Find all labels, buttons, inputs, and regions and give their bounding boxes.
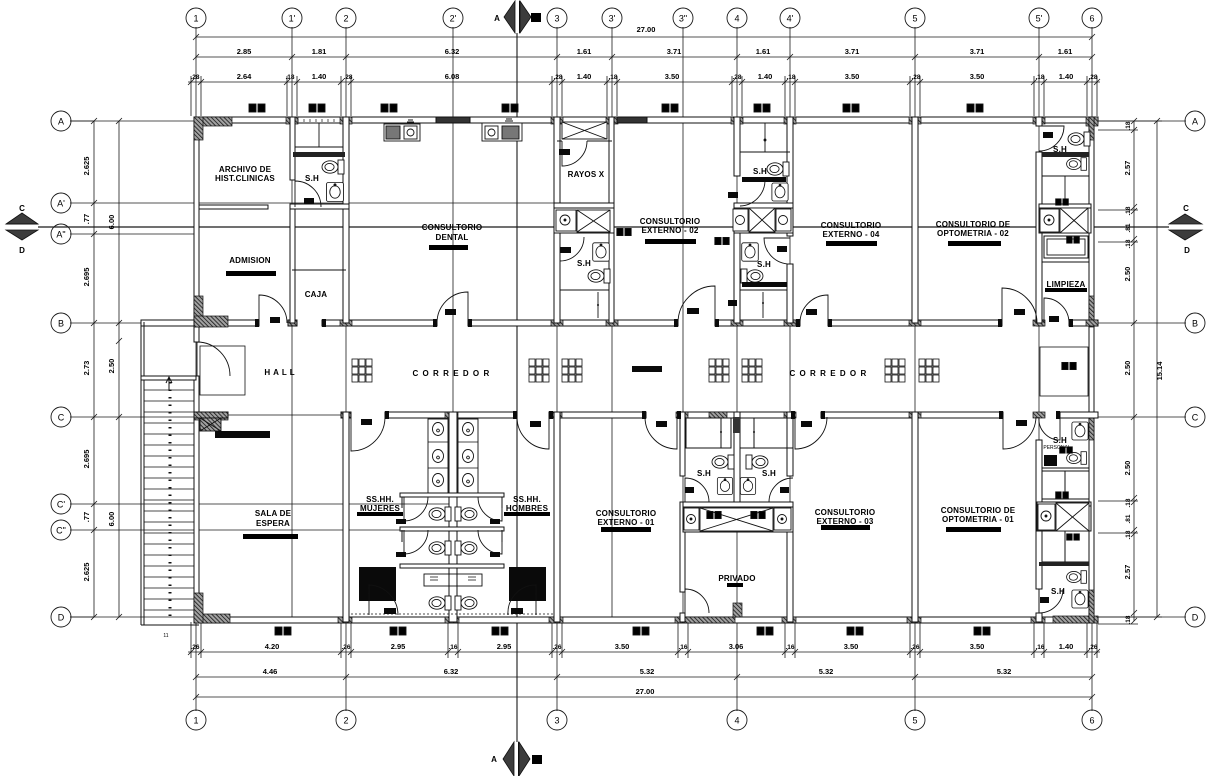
- ss.hh showers: [359, 567, 396, 601]
- grid line 4: [736, 27, 738, 711]
- svg-text:C": C": [56, 526, 66, 536]
- svg-text:S.H: S.H: [757, 260, 771, 269]
- grid line 3: [556, 27, 558, 711]
- svg-text:15.14: 15.14: [1155, 361, 1164, 381]
- svg-text:3: 3: [554, 14, 559, 24]
- ss.hh stall wall row2: [400, 527, 504, 531]
- partition wall grid3 lower: [554, 412, 560, 622]
- svg-text:.81: .81: [1125, 223, 1132, 232]
- partition wall grid4' lower: [787, 412, 793, 476]
- sh g4 label bar: [742, 177, 786, 182]
- svg-text:.81: .81: [1125, 514, 1132, 523]
- stall doors row2: [404, 530, 428, 554]
- door externo-03: [795, 417, 827, 449]
- top grid bubbles: [186, 8, 206, 28]
- window tags bottom: [275, 627, 291, 635]
- svg-text:1.61: 1.61: [1058, 47, 1073, 56]
- svg-text:1.81: 1.81: [312, 47, 327, 56]
- svg-text:B: B: [535, 759, 539, 765]
- section marker A-B bottom: [518, 742, 520, 776]
- svg-text:MUJERES: MUJERES: [360, 504, 401, 513]
- C wall piers: [445, 412, 1045, 418]
- right strip shaft band lower: [1038, 504, 1055, 530]
- svg-text:HALL: HALL: [264, 368, 297, 377]
- corridor end room outline: [1040, 347, 1088, 396]
- grid row A'' line: [70, 233, 196, 235]
- svg-text:6.32: 6.32: [444, 667, 459, 676]
- door ss.hh hombres: [517, 417, 549, 449]
- svg-text:CORREDOR: CORREDOR: [412, 369, 493, 378]
- svg-text:4.46: 4.46: [263, 667, 278, 676]
- svg-text:.28: .28: [553, 74, 562, 81]
- right strip closet divider top: [1064, 176, 1066, 204]
- bottom exterior wall: [194, 617, 1098, 623]
- svg-text:.18: .18: [1125, 239, 1132, 248]
- door jambs corridor wall C: [385, 411, 1060, 419]
- door ss.hh mujeres: [351, 417, 385, 451]
- svg-text:5: 5: [912, 14, 917, 24]
- shaft band g3: sink box: [556, 210, 576, 231]
- svg-text:5.32: 5.32: [997, 667, 1012, 676]
- ss.hh stall toilets row1: [429, 507, 451, 521]
- top exterior wall: [194, 117, 1098, 123]
- door sh top-left: [295, 181, 321, 207]
- svg-text:3": 3": [679, 14, 687, 24]
- dental counter 2: [482, 123, 522, 141]
- svg-text:D: D: [1192, 613, 1199, 623]
- svg-text:SS.HH.: SS.HH.: [513, 495, 541, 504]
- ss.hh stall wall row3: [400, 564, 504, 568]
- svg-text:CONSULTORIO DE: CONSULTORIO DE: [941, 506, 1016, 515]
- svg-text:1.61: 1.61: [577, 47, 592, 56]
- svg-text:5: 5: [912, 716, 917, 726]
- svg-text:.16: .16: [1035, 644, 1044, 651]
- door optometria-01: [1003, 417, 1036, 449]
- svg-text:ADMISION: ADMISION: [229, 256, 271, 265]
- svg-text:.18: .18: [1125, 530, 1132, 539]
- right strip toilet 2: [1067, 158, 1087, 171]
- door limpieza: [1044, 298, 1069, 323]
- svg-text:CONSULTORIO: CONSULTORIO: [815, 508, 876, 517]
- stall doors row1: [404, 497, 428, 521]
- grid row C' line: [70, 503, 452, 505]
- svg-text:5.32: 5.32: [640, 667, 655, 676]
- corridor wall C with door gaps: [194, 412, 228, 418]
- sh top-left closet: [295, 146, 343, 148]
- svg-text:2: 2: [343, 716, 348, 726]
- svg-text:4.20: 4.20: [265, 642, 280, 651]
- left exterior wall: [194, 117, 199, 342]
- caja top wall: [292, 269, 346, 271]
- right grid bubbles: [1185, 111, 1205, 131]
- svg-text:4: 4: [734, 716, 739, 726]
- svg-text:27.00: 27.00: [636, 687, 655, 696]
- ss.hh double lavatory: [424, 574, 482, 586]
- svg-text:S.H: S.H: [1053, 436, 1067, 445]
- svg-text:11: 11: [163, 633, 168, 639]
- svg-text:6.00: 6.00: [107, 215, 116, 230]
- svg-text:EXTERNO - 03: EXTERNO - 03: [816, 517, 873, 526]
- top dim line row1 (27.00): [196, 36, 1092, 38]
- window sill ticks over SH window: [298, 119, 334, 122]
- grid line 5: [914, 27, 916, 711]
- top sh band g4: [734, 203, 793, 208]
- bottom dim line row2: [196, 676, 1092, 678]
- ss.hh stall wall row1: [400, 493, 504, 497]
- bottom extension stubs: [191, 622, 1097, 658]
- closet below sh-rayos: [560, 289, 609, 291]
- svg-text:.18: .18: [608, 74, 617, 81]
- svg-text:A: A: [58, 117, 64, 127]
- door privado: [685, 589, 709, 613]
- grid line 2': [452, 27, 454, 622]
- svg-text:A: A: [1192, 117, 1198, 127]
- svg-text:CONSULTORIO: CONSULTORIO: [640, 217, 701, 226]
- grid line 1: [195, 27, 197, 711]
- partition wall grid1' upper: [290, 117, 295, 180]
- svg-text:3: 3: [554, 716, 559, 726]
- door admision: [259, 295, 287, 323]
- svg-text:S.H: S.H: [697, 469, 711, 478]
- svg-text:1: 1: [193, 14, 198, 24]
- svg-text:1.40: 1.40: [1059, 72, 1074, 81]
- door dental: [437, 292, 468, 323]
- window tags top: [249, 104, 265, 112]
- svg-text:ARCHIVO DE: ARCHIVO DE: [219, 165, 272, 174]
- svg-text:.28: .28: [1088, 74, 1097, 81]
- svg-text:2.50: 2.50: [107, 359, 116, 374]
- svg-text:ESPERA: ESPERA: [256, 519, 290, 528]
- hall landing wall to stair: [141, 320, 194, 326]
- svg-text:.18: .18: [1035, 74, 1044, 81]
- svg-text:S.H: S.H: [1053, 145, 1067, 154]
- svg-text:2.73: 2.73: [82, 361, 91, 376]
- left grid bubbles: [51, 111, 71, 131]
- door externo-01: [645, 417, 677, 449]
- right strip shaft band top: [1040, 209, 1059, 232]
- grid row C'' line: [70, 529, 452, 531]
- svg-text:C': C': [57, 500, 65, 510]
- sh g4 closet: [740, 151, 790, 153]
- sink sh top-left: [326, 183, 343, 202]
- ss.hh centre wall lower: [449, 412, 457, 622]
- top dim line row2: [196, 56, 1092, 58]
- bottom grid bubbles: [186, 710, 206, 730]
- svg-text:2.95: 2.95: [391, 642, 406, 651]
- svg-text:1.40: 1.40: [758, 72, 773, 81]
- svg-text:5': 5': [1036, 14, 1043, 24]
- grid line 1': [291, 27, 293, 622]
- corridor ceiling grids: [352, 359, 372, 382]
- svg-text:.16: .16: [678, 644, 687, 651]
- svg-text:.16: .16: [785, 644, 794, 651]
- svg-text:D: D: [1184, 246, 1190, 255]
- right extension stubs: [1098, 121, 1162, 624]
- svg-text:1: 1: [193, 716, 198, 726]
- svg-text:5.32: 5.32: [819, 667, 834, 676]
- right strip partitions lower: [1042, 467, 1089, 469]
- grid row D line: [70, 616, 196, 618]
- right strip bottom toilet: [1067, 571, 1087, 584]
- svg-text:.18: .18: [285, 74, 294, 81]
- svg-text:2.57: 2.57: [1123, 565, 1132, 580]
- svg-text:2.95: 2.95: [497, 642, 512, 651]
- svg-text:CONSULTORIO: CONSULTORIO: [596, 509, 657, 518]
- top wall solid segment near section: [436, 117, 470, 123]
- svg-text:.18: .18: [1125, 121, 1132, 130]
- svg-text:27.00: 27.00: [637, 25, 656, 34]
- partition wall grid5' upper: [1036, 117, 1042, 126]
- ss.hh tile line: [351, 613, 553, 615]
- right strip personal sh toilet: [1067, 452, 1087, 465]
- mid-block shaft band: [683, 507, 793, 532]
- ss.hh stall toilets row2: [429, 541, 451, 555]
- door externo-02: [678, 286, 715, 323]
- svg-text:A': A': [57, 199, 65, 209]
- svg-text:S.H: S.H: [1051, 587, 1065, 596]
- svg-text:D: D: [19, 246, 25, 255]
- section marker A-B top: [519, 1, 521, 33]
- svg-text:EXTERNO - 02: EXTERNO - 02: [641, 226, 698, 235]
- svg-text:3.71: 3.71: [667, 47, 682, 56]
- svg-text:LIMPIEZA: LIMPIEZA: [1047, 280, 1086, 289]
- svg-text:EXTERNO - 04: EXTERNO - 04: [822, 230, 879, 239]
- svg-text:.16: .16: [448, 644, 457, 651]
- top wall piers hatched: [194, 117, 1098, 126]
- svg-text:SALA DE: SALA DE: [255, 509, 292, 518]
- closet below sh g4': [740, 289, 787, 291]
- bottom wall piers hatched: [194, 614, 1098, 623]
- right strip personal sh sink: [1072, 422, 1088, 440]
- partition wall grid5 upper: [912, 117, 918, 323]
- svg-text:OPTOMETRIA - 02: OPTOMETRIA - 02: [937, 229, 1009, 238]
- grid line 6: [1091, 27, 1093, 711]
- svg-text:3.50: 3.50: [845, 72, 860, 81]
- svg-text:CONSULTORIO: CONSULTORIO: [422, 223, 483, 232]
- right strip partitions upper: [1042, 152, 1089, 157]
- svg-text:.28: .28: [190, 74, 199, 81]
- partition wall grid5 lower: [912, 412, 918, 622]
- svg-text:B: B: [58, 319, 64, 329]
- svg-text:2.695: 2.695: [82, 268, 91, 287]
- svg-text:C: C: [19, 204, 25, 213]
- svg-text:CONSULTORIO: CONSULTORIO: [821, 221, 882, 230]
- svg-text:B: B: [534, 17, 538, 23]
- svg-text:1': 1': [289, 14, 296, 24]
- svg-text:2: 2: [343, 14, 348, 24]
- svg-text:2.50: 2.50: [1123, 267, 1132, 282]
- svg-text:6: 6: [1089, 14, 1094, 24]
- svg-text:3.71: 3.71: [970, 47, 985, 56]
- top extension stubs: [191, 76, 1097, 116]
- svg-text:.28: .28: [911, 74, 920, 81]
- svg-text:A": A": [56, 230, 65, 240]
- toilet sh-rayos: [588, 269, 610, 283]
- door mid sh left: [685, 478, 709, 502]
- door sh g4 top: [740, 181, 765, 206]
- svg-text:.28: .28: [343, 74, 352, 81]
- svg-text:.18: .18: [1125, 206, 1132, 215]
- archivo bottom wall: [199, 205, 268, 209]
- svg-text:RAYOS X: RAYOS X: [568, 170, 605, 179]
- svg-text:2.50: 2.50: [1123, 361, 1132, 376]
- partition wall grid4 upper: [734, 117, 740, 176]
- grid row A' line: [70, 202, 612, 204]
- door sh g4' lower: [764, 238, 790, 264]
- rayos bottom wall: [554, 203, 614, 208]
- svg-text:S.H: S.H: [753, 167, 767, 176]
- partition wall grid2 upper: [343, 117, 349, 323]
- partition wall grid3' upper: [609, 117, 614, 323]
- svg-text:3.50: 3.50: [615, 642, 630, 651]
- svg-text:3.50: 3.50: [844, 642, 859, 651]
- bottom dim line row1: [188, 651, 1100, 653]
- door externo-04: [800, 295, 828, 323]
- svg-text:2.625: 2.625: [82, 157, 91, 176]
- door sh personal: [1039, 417, 1060, 440]
- svg-text:EXTERNO - 01: EXTERNO - 01: [597, 518, 654, 527]
- grid line 5': [1038, 27, 1040, 622]
- svg-text:.26: .26: [341, 644, 350, 651]
- svg-text:HOMBRES: HOMBRES: [506, 504, 549, 513]
- svg-text:1.61: 1.61: [756, 47, 771, 56]
- svg-text:4: 4: [734, 14, 739, 24]
- svg-text:.26: .26: [552, 644, 561, 651]
- svg-text:6.32: 6.32: [445, 47, 460, 56]
- svg-text:2.50: 2.50: [1123, 461, 1132, 476]
- svg-text:6.00: 6.00: [107, 512, 116, 527]
- right exterior wall: [1089, 117, 1094, 623]
- svg-text:6: 6: [1089, 716, 1094, 726]
- grid row A line: [70, 120, 196, 122]
- svg-text:2.695: 2.695: [82, 450, 91, 469]
- svg-text:PERSONAL: PERSONAL: [1043, 445, 1070, 451]
- svg-text:2.85: 2.85: [237, 47, 252, 56]
- sala bench: [215, 431, 270, 438]
- svg-text:CAJA: CAJA: [305, 290, 328, 299]
- corridor black bar: [632, 366, 662, 372]
- mid-block sinks: [717, 478, 732, 495]
- right strip laundry sink: [1047, 239, 1085, 255]
- archivo/sh floor wall: [290, 204, 349, 209]
- left wall piers: [194, 117, 228, 623]
- svg-text:OPTOMETRIA - 01: OPTOMETRIA - 01: [942, 515, 1014, 524]
- svg-text:DENTAL: DENTAL: [435, 233, 468, 242]
- sink sh-rayos: [593, 243, 610, 261]
- mid-block shaft band: [684, 508, 699, 530]
- partition wall grid5' lower: [1036, 440, 1042, 589]
- stair treads: [144, 390, 194, 610]
- right strip toilet top: [1068, 132, 1090, 146]
- corridor wall B with door gaps: [194, 320, 259, 326]
- sink sh g4 top: [772, 183, 788, 201]
- svg-text:.18: .18: [786, 74, 795, 81]
- mid-block top closets: [686, 418, 731, 448]
- toilet sh g4 top: [767, 162, 789, 176]
- sala de espera column: [200, 418, 221, 431]
- right strip bottom sink: [1072, 590, 1088, 608]
- shaft band g4: sink boxes and duct: [733, 209, 748, 231]
- door sh-rayos: [560, 237, 584, 261]
- grid line 3': [611, 27, 613, 622]
- svg-text:CORREDOR: CORREDOR: [789, 369, 870, 378]
- svg-text:.28: .28: [732, 74, 741, 81]
- section line A-B vertical: [516, 33, 518, 742]
- svg-text:3.50: 3.50: [970, 642, 985, 651]
- dim texts bottom row1: [190, 644, 1097, 651]
- interior tags: [617, 228, 631, 235]
- stair centre dashed line: [169, 382, 172, 622]
- svg-text:4': 4': [787, 14, 794, 24]
- svg-text:6.08: 6.08: [445, 72, 460, 81]
- shaft band frame g3: [554, 208, 614, 233]
- svg-text:C: C: [1192, 413, 1199, 423]
- mid-block toilets: [712, 455, 734, 469]
- svg-text:C: C: [1183, 204, 1189, 213]
- shaft band g3: duct: [577, 210, 610, 232]
- rayos x shaft: [562, 122, 607, 139]
- bottom dim line row3: [196, 696, 1092, 698]
- svg-text:3.06: 3.06: [729, 642, 744, 651]
- ss.hh stall fronts: [401, 497, 403, 508]
- left dim col2: [118, 121, 120, 617]
- section line C-D horizontal: [38, 226, 1169, 228]
- dental counter 1: [384, 124, 420, 141]
- door right strip sh bottom: [1039, 589, 1063, 613]
- svg-text:.77: .77: [82, 512, 91, 522]
- door rayos x: [562, 141, 587, 166]
- dim texts top row3: [190, 74, 1097, 81]
- svg-text:.18: .18: [1125, 498, 1132, 507]
- svg-text:2': 2': [450, 14, 457, 24]
- door optometria-02: [1002, 288, 1037, 323]
- svg-text:S.H: S.H: [577, 259, 591, 268]
- mid sh centre wall lower: [734, 412, 740, 532]
- svg-text:.26: .26: [910, 644, 919, 651]
- partition wall grid4' upper: [787, 117, 793, 236]
- grid line 4': [789, 27, 791, 622]
- svg-text:B: B: [1192, 319, 1198, 329]
- svg-text:3.50: 3.50: [665, 72, 680, 81]
- stair up arrow: [166, 377, 172, 390]
- hall desk: [200, 346, 245, 395]
- svg-text:.26: .26: [1088, 644, 1097, 651]
- door right strip sh top: [1039, 126, 1064, 151]
- privado top wall: [683, 531, 793, 533]
- left dim col1: [93, 121, 95, 617]
- grid row B line: [70, 322, 196, 324]
- svg-text:3.50: 3.50: [970, 72, 985, 81]
- ss.hh basin columns: [428, 419, 448, 493]
- svg-text:S.H: S.H: [762, 469, 776, 478]
- rayos under-shaft wall: [557, 140, 562, 142]
- svg-text:SS.HH.: SS.HH.: [366, 495, 394, 504]
- right dim col2: [1156, 121, 1158, 617]
- svg-text:1.40: 1.40: [1059, 642, 1074, 651]
- svg-text:.26: .26: [190, 644, 199, 651]
- svg-text:2.625: 2.625: [82, 563, 91, 582]
- door mid sh right: [769, 478, 793, 502]
- svg-text:HIST.CLINICAS: HIST.CLINICAS: [215, 174, 275, 183]
- door hall entrance: [197, 342, 230, 376]
- ss.hh inner doors bottom: [369, 585, 398, 615]
- grid row C line: [70, 416, 196, 418]
- sink sh g4' lower: [742, 243, 759, 261]
- top dim line row3: [188, 81, 1100, 83]
- partition wall grid2 lower: [343, 412, 349, 622]
- B wall piers: [194, 316, 1098, 327]
- right dim col1: [1133, 121, 1135, 621]
